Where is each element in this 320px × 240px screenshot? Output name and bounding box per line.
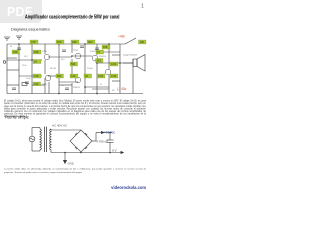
svg-text:TIP42: TIP42	[42, 84, 48, 86]
svg-text:22uF: 22uF	[22, 65, 27, 67]
svg-text:47K: 47K	[31, 40, 36, 44]
svg-text:120: 120	[71, 74, 76, 78]
svg-text:0.33: 0.33	[111, 62, 117, 66]
svg-text:2N3055: 2N3055	[99, 56, 107, 58]
svg-text:AC 40V AC: AC 40V AC	[52, 124, 68, 128]
svg-text:BD139: BD139	[50, 68, 57, 70]
svg-text:1K: 1K	[85, 74, 88, 78]
svg-text:+43v: +43v	[118, 35, 125, 39]
svg-text:0.33: 0.33	[98, 74, 104, 78]
svg-text:0 V: 0 V	[112, 149, 117, 153]
svg-text:2K2: 2K2	[24, 56, 28, 58]
svg-text:1K5: 1K5	[57, 40, 62, 44]
svg-text:10K: 10K	[140, 40, 145, 44]
svg-text:2N3055: 2N3055	[73, 87, 81, 89]
svg-text:22K: 22K	[13, 50, 18, 54]
svg-text:4K7: 4K7	[61, 59, 65, 61]
svg-text:(-) 43v: (-) 43v	[117, 87, 127, 91]
svg-text:TIP41: TIP41	[42, 51, 48, 53]
svg-text:2K2: 2K2	[97, 59, 102, 63]
svg-text:+43 Vcc: +43 Vcc	[104, 130, 116, 134]
svg-text:100: 100	[103, 45, 108, 49]
svg-text:10uF: 10uF	[26, 78, 31, 80]
svg-text:GND: GND	[68, 162, 74, 166]
svg-text:NF: NF	[112, 90, 115, 92]
svg-text:2K2: 2K2	[88, 40, 93, 44]
svg-text:100: 100	[34, 82, 39, 86]
svg-text:4.700 uF: 4.700 uF	[96, 140, 108, 144]
svg-text:47K: 47K	[34, 74, 39, 78]
svg-text:10K: 10K	[34, 50, 39, 54]
svg-text:1N4148: 1N4148	[90, 51, 98, 53]
svg-text:560: 560	[57, 74, 62, 78]
svg-text:220: 220	[72, 40, 77, 44]
svg-text:0.33: 0.33	[111, 74, 117, 78]
svg-text:IN: IN	[10, 46, 13, 48]
svg-text:560: 560	[71, 62, 76, 66]
svg-text:100uF: 100uF	[87, 68, 93, 70]
svg-text:Carga Parlante: Carga Parlante	[123, 54, 138, 57]
svg-text:1K: 1K	[34, 60, 37, 64]
svg-text:47: 47	[62, 85, 65, 87]
svg-text:TIP41: TIP41	[73, 50, 79, 52]
svg-text:47: 47	[100, 84, 103, 86]
